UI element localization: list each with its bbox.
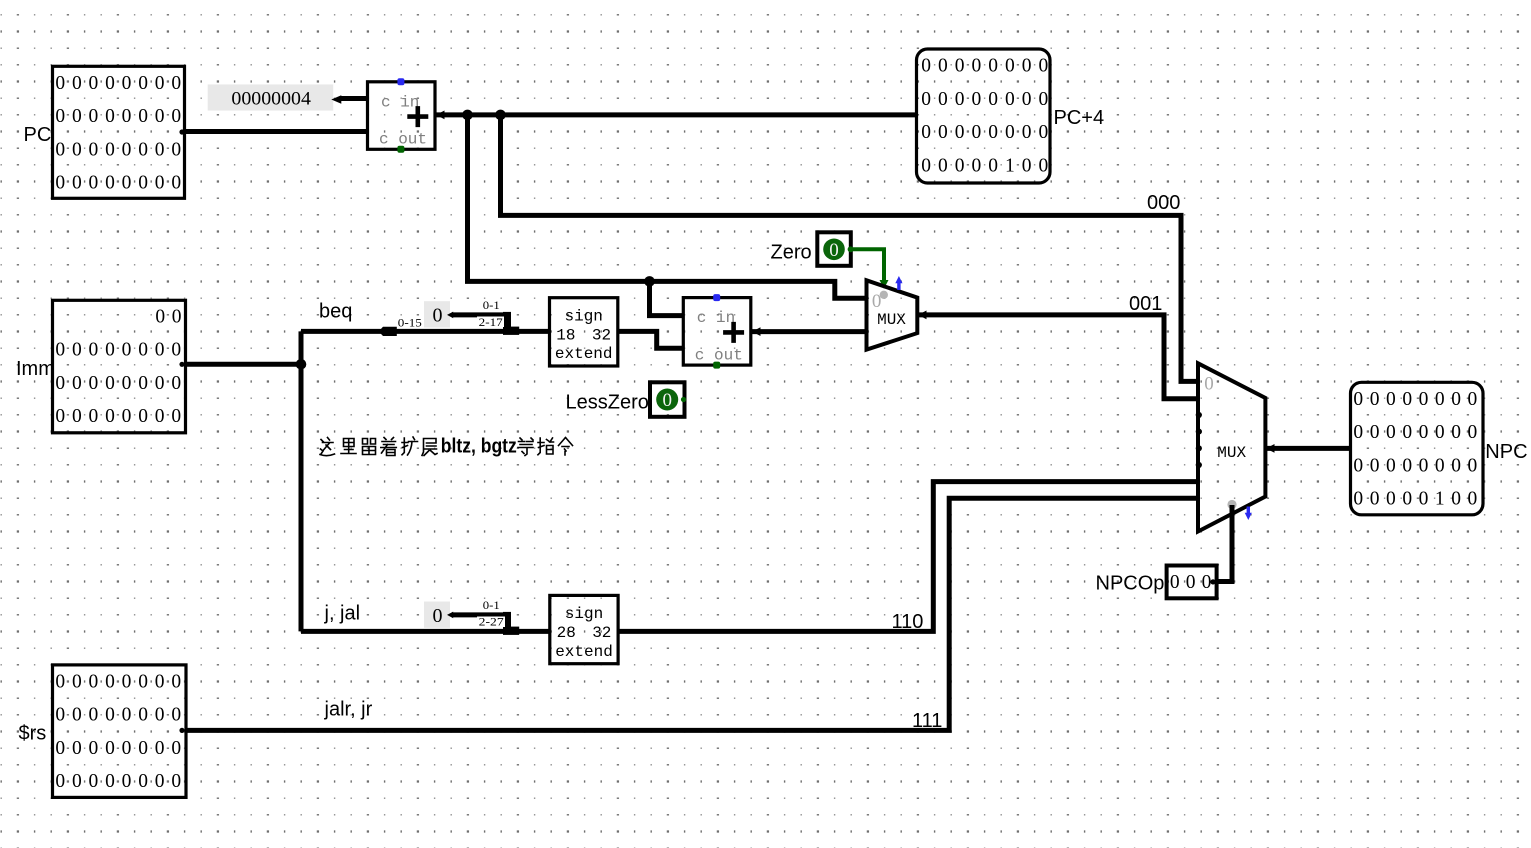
svg-text:0: 0 xyxy=(1204,374,1214,395)
svg-text:18: 18 xyxy=(556,326,575,344)
svg-text:j, jal: j, jal xyxy=(324,603,361,625)
wire beq offset (Imm 0-15) to splitter xyxy=(301,329,550,334)
output pin NPC (rounded, value 00000004) xyxy=(1351,382,1484,515)
svg-text:jalr, jr: jalr, jr xyxy=(324,699,373,721)
svg-text:Imm: Imm xyxy=(16,358,55,380)
wire jump target (net) xyxy=(301,629,550,634)
sign extender 28 to 32 xyxy=(550,595,618,663)
wire adder U2 output to MUX M1 input 1 xyxy=(751,327,867,336)
svg-text:$rs: $rs xyxy=(19,723,47,745)
svg-text:111: 111 xyxy=(912,710,942,732)
input pin PC (32-bit, value 00000000) xyxy=(53,66,185,198)
svg-text:PC: PC xyxy=(24,124,52,146)
wire Imm output xyxy=(186,331,307,631)
mux M1 (branch taken?) xyxy=(867,276,918,350)
svg-text:MUX: MUX xyxy=(1217,444,1246,462)
wire MUX M2 output to NPC xyxy=(1265,444,1350,453)
svg-text:sign: sign xyxy=(565,605,603,623)
splitter bar (combine to 28 bits) xyxy=(503,612,519,635)
constant 00000004 xyxy=(208,84,334,110)
adder U2 (branch target) xyxy=(683,294,751,369)
svg-text:LessZero: LessZero xyxy=(566,392,649,414)
svg-text:sign: sign xyxy=(564,308,602,326)
svg-text:28: 28 xyxy=(557,624,576,642)
constant 0 (bits 0-1 of branch offset) xyxy=(424,301,450,327)
wire NPCOp to MUX M2 select xyxy=(1217,505,1233,582)
output pin Zero (1-bit, value 0) xyxy=(817,232,853,265)
svg-text:0: 0 xyxy=(662,390,672,411)
wire sign extender 2 output (net 110) to big MUX input 6 xyxy=(618,482,1198,632)
svg-text:2-17: 2-17 xyxy=(479,317,503,329)
wire Zero to MUX M1 select (1-bit, green) xyxy=(851,249,889,288)
adder U1 (PC + 4) xyxy=(368,78,436,153)
annotation text: reserved for bltz/bgtz extension xyxy=(320,437,437,456)
wire sign extender output to adder U2 input B xyxy=(618,331,684,348)
svg-text:0: 0 xyxy=(433,305,443,327)
svg-text:0-15: 0-15 xyxy=(398,318,422,330)
svg-text:000: 000 xyxy=(1170,572,1212,593)
svg-text:2-27: 2-27 xyxy=(479,617,504,629)
svg-text:0: 0 xyxy=(829,240,839,261)
svg-text:001: 001 xyxy=(1129,293,1162,315)
svg-text:110: 110 xyxy=(892,611,924,633)
input pin $rs (32-bit) xyxy=(53,665,187,798)
wire constant to adder U1 input A xyxy=(331,95,367,104)
wire net 000 : PC+4 to big MUX input 0 xyxy=(501,115,1199,382)
svg-text:NPC: NPC xyxy=(1485,441,1527,463)
wire adder U1 output with junctions xyxy=(435,110,917,121)
output pin PC+4 (rounded, value 00000004) xyxy=(917,49,1051,183)
input pin Imm (26-bit) xyxy=(53,300,186,433)
svg-text:PC+4: PC+4 xyxy=(1054,107,1105,129)
svg-text:extend: extend xyxy=(555,345,613,363)
input pin NPCOp (3-bit) xyxy=(1167,566,1217,599)
constant 0 (bits 0-1 of jump target) xyxy=(424,602,450,628)
wire $rs (net 111) to big MUX input 7 xyxy=(186,498,1199,730)
wire PC output to adder U1 input B xyxy=(185,129,368,134)
svg-text:00000004: 00000004 xyxy=(231,89,311,110)
mux M2 (NPC select, 8 inputs) xyxy=(1196,363,1266,531)
junction to adder U2 xyxy=(644,276,683,316)
svg-text:0: 0 xyxy=(433,605,443,627)
svg-text:000: 000 xyxy=(1147,192,1180,214)
splitter bar (combine to 18 bits) xyxy=(503,312,519,335)
sign extender 18 to 32 xyxy=(550,298,618,366)
svg-text:c in: c in xyxy=(697,309,735,327)
svg-text:32: 32 xyxy=(592,326,611,344)
svg-text:MUX: MUX xyxy=(877,311,906,329)
svg-text:bltz, bgtz: bltz, bgtz xyxy=(441,436,517,458)
label 2-17 xyxy=(477,317,504,330)
wire constant 0 to splitter leg 0-1 xyxy=(447,312,505,319)
svg-text:beq: beq xyxy=(319,301,352,323)
svg-text:Zero: Zero xyxy=(771,242,812,264)
wire PC+4 branch to adder U2 / MUX M1 xyxy=(468,115,867,298)
label 2-27 xyxy=(477,617,505,629)
svg-text:32: 32 xyxy=(592,624,611,642)
svg-text:0-1: 0-1 xyxy=(483,300,500,312)
output pin LessZero (1-bit, value 0) xyxy=(650,382,686,417)
svg-text:0-1: 0-1 xyxy=(483,600,500,612)
wire MUX M1 output (net 001) xyxy=(917,311,1198,399)
svg-text:NPCOp: NPCOp xyxy=(1096,573,1165,595)
svg-text:extend: extend xyxy=(555,643,613,661)
svg-text:c in: c in xyxy=(381,93,419,111)
splitter fan 0-15 (trunk arrow) xyxy=(379,327,397,336)
wire constant 0 to splitter leg 0-1 xyxy=(447,612,505,619)
